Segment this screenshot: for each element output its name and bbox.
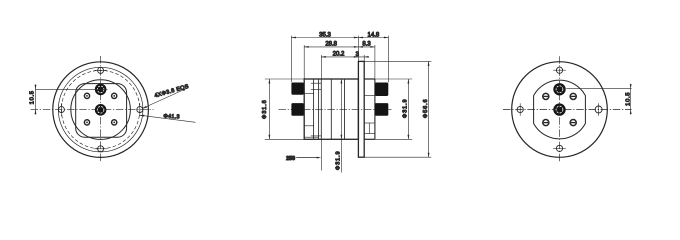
svg-text:Φ56.6: Φ56.6	[423, 98, 429, 118]
svg-text:8.3: 8.3	[362, 42, 371, 48]
left view bolt hole W	[58, 103, 64, 116]
middle view left body internal horizontal lines	[304, 83, 321, 137]
dimension extension lines top	[291, 36, 388, 83]
right view bolt hole W	[517, 103, 523, 116]
svg-text:35.3: 35.3	[319, 32, 331, 38]
svg-text:Φ31.8: Φ31.8	[262, 99, 268, 119]
left view bolt circle (dashed, Phi41.3)	[61, 70, 139, 148]
middle view right body outline	[364, 79, 375, 139]
left view dimension 10.5 dim line with outside arrows	[35, 84, 37, 114]
right view slotted screw BL	[543, 120, 549, 126]
left view screw hole TR	[112, 93, 117, 98]
middle view left body outline	[304, 79, 358, 139]
extension line below body at x=321.3	[320, 139, 322, 170]
left view bolt hole E	[137, 103, 143, 116]
dimension 28.8 / 8.3 line	[304, 46, 375, 48]
left view screw hole BR	[112, 120, 117, 125]
svg-text:14.8: 14.8	[368, 32, 380, 38]
svg-text:250: 250	[286, 156, 295, 162]
middle view left connector block lower	[291, 103, 303, 116]
svg-text:10.5: 10.5	[626, 92, 632, 106]
right view bolt hole N	[553, 67, 566, 73]
right view big hole 1 (top)	[553, 83, 565, 95]
left view vertical centerline	[100, 56, 102, 162]
middle view flange (Phi56.6 disc)	[358, 61, 364, 157]
left view outer flange circle	[53, 62, 149, 158]
right view bolt hole S	[553, 145, 566, 151]
left view big hole 2 (center)	[95, 104, 107, 116]
svg-text:10.5: 10.5	[30, 90, 36, 104]
left view boss circle	[71, 80, 131, 140]
left view connector plate (rounded square)	[76, 84, 127, 138]
middle view left connector block upper	[291, 83, 303, 95]
middle view right connector block upper	[375, 83, 388, 97]
right view bolt hole E	[595, 103, 602, 116]
right view vertical centerline	[559, 56, 561, 162]
dimension Phi56.6 extension lines	[358, 61, 431, 157]
right view outer flange circle	[512, 62, 608, 158]
right view slotted screw BR	[570, 120, 576, 126]
left view mid step circle	[58, 67, 143, 152]
dimension Phi31.9 (bottom middle) line	[341, 79, 343, 173]
leader 250 (bold)	[296, 157, 321, 159]
dimension Phi31.8 extension lines (left)	[265, 79, 304, 139]
left view screw hole TL	[84, 93, 89, 98]
middle view right connector block lower	[375, 103, 388, 116]
right view big hole 2 (center)	[553, 103, 565, 115]
dimension Phi31.9 right line	[408, 79, 410, 139]
middle view right body internal horizontal lines	[364, 96, 375, 134]
right view dimension 10.5 extension line	[566, 88, 631, 90]
left view leader 4XPhi3.6 EQS	[142, 88, 187, 108]
right view horizontal centerline	[503, 109, 632, 111]
right view plate (circle with flat sides)	[534, 80, 586, 139]
right view slotted screw TL	[543, 93, 549, 99]
middle view horizontal centerline	[279, 108, 392, 110]
svg-text:Φ41.3: Φ41.3	[163, 114, 180, 121]
left view big hole 1 (top)	[95, 84, 107, 96]
dimension Phi56.6 line	[428, 61, 430, 157]
svg-text:20.2: 20.2	[333, 52, 345, 58]
svg-text:28.8: 28.8	[325, 42, 337, 48]
dimension 35.3 / 14.8 line	[291, 37, 388, 39]
left view bolt hole N	[94, 67, 107, 73]
middle view left body internal vertical lines	[314, 79, 345, 139]
svg-text:Φ31.9: Φ31.9	[403, 98, 409, 118]
dimension Phi31.9 (right) extension lines	[375, 79, 412, 139]
left view dimension 10.5 extension line	[35, 88, 107, 90]
dimension 20.2 / 3 line	[321, 56, 368, 58]
dimension Phi31.8 line	[269, 79, 271, 139]
left view leader Phi41.3	[140, 115, 196, 123]
right view slotted screw TR	[570, 93, 576, 99]
left view screw hole BL	[84, 120, 89, 125]
left view horizontal centerline	[31, 109, 154, 111]
svg-text:Φ31.9: Φ31.9	[336, 150, 342, 170]
left view bolt hole S	[94, 146, 107, 152]
right view dimension 10.5 dim line with outside arrows	[630, 84, 632, 115]
